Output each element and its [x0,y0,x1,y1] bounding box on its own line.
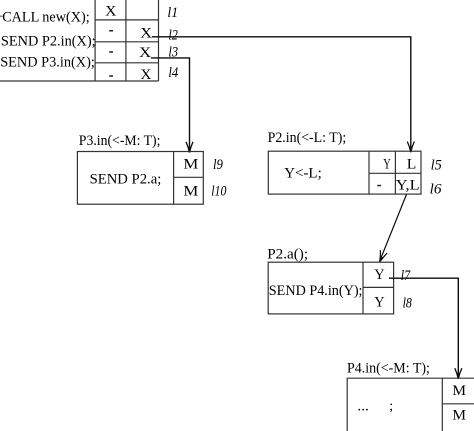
svg-text:l3: l3 [168,45,178,61]
svg-text:l2: l2 [168,27,178,43]
svg-text:Y: Y [374,295,385,311]
cell - row l6 [377,185,381,187]
svg-text:P3.in(<-M: T);: P3.in(<-M: T); [79,132,161,149]
svg-text:l7: l7 [401,268,412,284]
svg-text:l8: l8 [403,296,413,312]
svg-text:l6: l6 [430,182,442,198]
svg-text:l4: l4 [168,65,178,81]
svg-text:X: X [105,4,117,20]
svg-text:l10: l10 [211,183,227,199]
cell - row l4 [109,75,113,77]
svg-text:L: L [407,157,417,173]
box P4.in (clipped at bottom-right) [347,378,474,431]
svg-text:;: ; [389,399,393,414]
svg-text:X: X [139,45,152,61]
box P2.a [268,262,393,314]
svg-text:X: X [140,67,152,83]
svg-text:P2.in(<-L: T);: P2.in(<-L: T); [268,129,347,146]
cell - row l3 [109,51,113,53]
box P1 statements (clipped at top-left) [0,0,95,81]
svg-text:Y<-L;: Y<-L; [284,165,322,182]
svg-text:Y: Y [374,267,385,283]
svg-text:SEND P2.in(X);: SEND P2.in(X); [1,33,96,50]
wire l3 to P3.in arrow [151,58,193,153]
svg-text:...: ... [357,397,368,414]
cell - row l2 [109,30,113,32]
wire Y,L to P2.a (diagonal arrow) [380,194,407,262]
svg-text:l5: l5 [431,158,443,174]
history table of P1 [95,0,158,81]
svg-text:P4.in(<-M: T);: P4.in(<-M: T); [347,359,430,376]
svg-text:SEND P4.in(Y);: SEND P4.in(Y); [269,282,363,299]
svg-text:M: M [183,184,198,200]
program-counter arrow stub at left edge [0,15,3,17]
svg-text:Y: Y [383,157,391,173]
svg-text:M: M [452,383,466,399]
svg-text:M: M [452,408,466,424]
svg-text:CALL new(X);: CALL new(X); [2,8,89,25]
wire l2 to P2.in arrow [152,37,414,153]
svg-text:l9: l9 [213,157,223,173]
svg-text:SEND P2.a;: SEND P2.a; [90,171,162,188]
wire l7 to P4.in arrow [389,278,462,379]
box P2.in [268,151,421,194]
svg-text:Y,L: Y,L [396,177,420,193]
box P3.in [77,152,203,205]
svg-text:M: M [183,157,198,173]
svg-text:SEND P3.in(X);: SEND P3.in(X); [0,53,95,70]
svg-text:P2.a();: P2.a(); [267,245,308,262]
svg-text:X: X [140,26,153,42]
svg-text:l1: l1 [167,5,178,21]
